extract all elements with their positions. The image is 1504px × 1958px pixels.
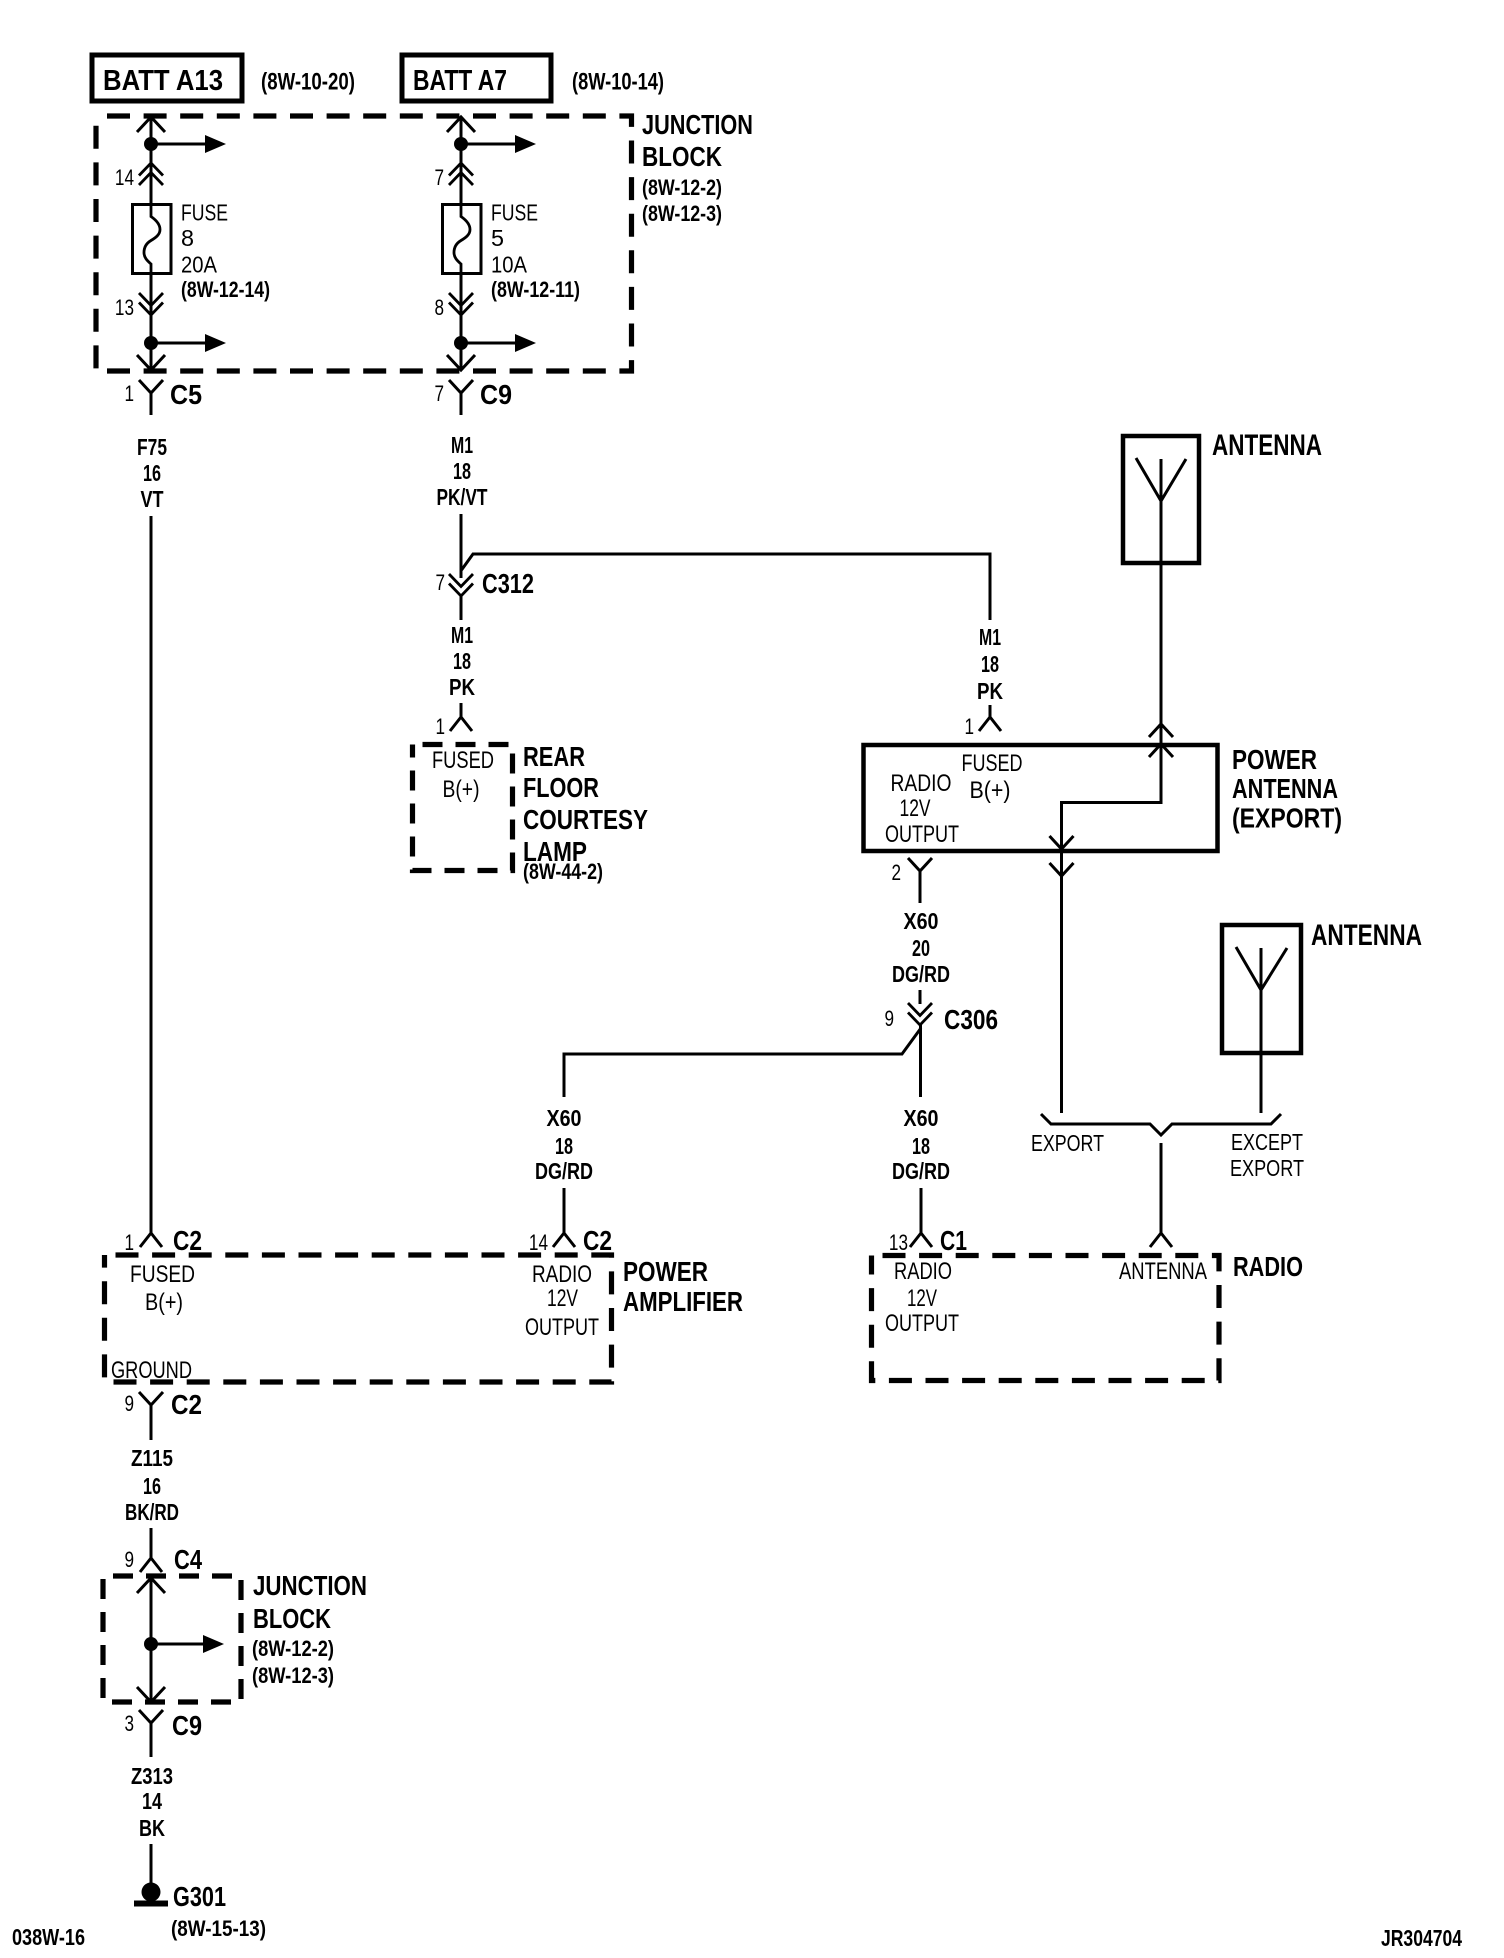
svg-text:12V: 12V	[907, 1285, 937, 1312]
svg-text:OUTPUT: OUTPUT	[885, 1310, 959, 1337]
svg-text:FLOOR: FLOOR	[523, 772, 599, 803]
svg-text:13: 13	[889, 1230, 908, 1255]
antenna wire inside power antenna box	[1062, 803, 1162, 1114]
svg-text:1: 1	[124, 1230, 134, 1255]
svg-text:(8W-12-2): (8W-12-2)	[642, 175, 722, 200]
svg-text:FUSE: FUSE	[181, 200, 228, 226]
svg-text:JUNCTION: JUNCTION	[642, 109, 753, 140]
svg-text:RADIO: RADIO	[891, 770, 952, 797]
junction node dot	[454, 137, 468, 151]
wire through junction block	[150, 1579, 153, 1700]
svg-text:C1: C1	[940, 1225, 967, 1256]
junction node dot	[454, 336, 468, 350]
svg-text:C2: C2	[173, 1225, 202, 1256]
arrow to antenna output (inside)	[1050, 836, 1074, 849]
wire to rear floor courtesy lamp	[460, 703, 463, 717]
svg-text:PK: PK	[449, 674, 475, 700]
svg-text:G301: G301	[173, 1881, 226, 1912]
svg-text:BLOCK: BLOCK	[642, 141, 722, 172]
svg-text:X60: X60	[904, 908, 939, 934]
arrow out of junction block	[447, 355, 475, 370]
wire from BATT feed down through junction block	[150, 117, 153, 204]
svg-text:X60: X60	[547, 1105, 582, 1131]
junction node dot	[144, 137, 158, 151]
svg-text:JR304704: JR304704	[1381, 1925, 1462, 1951]
svg-text:12V: 12V	[900, 795, 931, 822]
svg-text:POWER: POWER	[1232, 744, 1317, 775]
wire to power antenna	[989, 705, 992, 717]
svg-text:16: 16	[143, 460, 161, 486]
splice tap to power amplifier branch	[564, 1028, 921, 1097]
junction block (lower) dashed outline	[103, 1576, 241, 1702]
arrow into junction block	[137, 1578, 165, 1593]
connector C5 pin 1	[139, 380, 163, 415]
arrow to antenna output (outside)	[1050, 863, 1074, 876]
svg-text:18: 18	[555, 1133, 573, 1159]
svg-text:DG/RD: DG/RD	[892, 961, 950, 987]
svg-text:2: 2	[891, 860, 901, 885]
svg-text:7: 7	[434, 165, 444, 190]
svg-text:EXPORT: EXPORT	[1031, 1130, 1104, 1156]
svg-text:COURTESY: COURTESY	[523, 804, 648, 835]
connector C306 pin 9 (chevrons)	[908, 1003, 932, 1016]
svg-text:(8W-12-11): (8W-12-11)	[491, 277, 580, 302]
svg-text:14: 14	[115, 165, 134, 190]
svg-text:FUSED: FUSED	[962, 750, 1023, 777]
ground G301 symbol	[142, 1883, 161, 1902]
svg-text:18: 18	[453, 648, 471, 674]
svg-text:VT: VT	[141, 486, 164, 512]
svg-text:13: 13	[115, 295, 134, 320]
svg-text:RADIO: RADIO	[1233, 1251, 1303, 1282]
svg-text:BATT A13: BATT A13	[103, 65, 223, 97]
svg-text:RADIO: RADIO	[532, 1261, 592, 1288]
junction block (top) dashed outline	[96, 116, 632, 371]
svg-text:M1: M1	[451, 432, 473, 458]
svg-text:FUSED: FUSED	[130, 1261, 195, 1288]
antenna symbol	[1236, 947, 1287, 990]
svg-text:(8W-12-3): (8W-12-3)	[642, 201, 722, 226]
branch arrow to other circuits	[461, 143, 517, 146]
svg-text:18: 18	[912, 1133, 930, 1159]
svg-text:M1: M1	[979, 624, 1001, 650]
svg-text:18: 18	[453, 458, 471, 484]
fuse 5 element	[454, 195, 470, 285]
svg-text:DG/RD: DG/RD	[535, 1158, 593, 1184]
svg-text:F75: F75	[137, 434, 167, 460]
connector C2 pin 14 into power amplifier	[553, 1233, 575, 1247]
arrow into power antenna (outside)	[1149, 724, 1173, 737]
svg-text:10A: 10A	[491, 252, 528, 278]
branch arrow to other circuits	[461, 342, 517, 345]
svg-text:AMPLIFIER: AMPLIFIER	[623, 1286, 743, 1317]
svg-text:X60: X60	[904, 1105, 939, 1131]
wire from BATT feed down through junction block	[460, 117, 463, 204]
svg-text:OUTPUT: OUTPUT	[885, 821, 959, 848]
svg-text:14: 14	[529, 1230, 548, 1255]
svg-text:(8W-12-3): (8W-12-3)	[252, 1663, 334, 1688]
connector chevrons pin 8	[449, 293, 473, 306]
arrow from battery feed into junction block	[137, 117, 165, 132]
rear floor courtesy lamp dashed outline	[413, 745, 513, 871]
branch arrow to other circuits	[151, 143, 207, 146]
connector C4 pin 9 into junction block	[140, 1558, 162, 1572]
svg-text:(8W-44-2): (8W-44-2)	[523, 859, 603, 884]
svg-text:RADIO: RADIO	[894, 1258, 952, 1285]
svg-text:BLOCK: BLOCK	[253, 1603, 331, 1634]
svg-text:18: 18	[981, 651, 999, 677]
wire F75 16 VT (long vertical run)	[150, 516, 153, 1233]
svg-text:3: 3	[124, 1711, 134, 1736]
svg-text:BK: BK	[139, 1815, 165, 1841]
svg-text:C5: C5	[170, 379, 202, 410]
svg-text:POWER: POWER	[623, 1256, 708, 1287]
svg-text:BK/RD: BK/RD	[125, 1499, 179, 1525]
svg-text:GROUND: GROUND	[111, 1357, 192, 1384]
svg-text:14: 14	[142, 1788, 162, 1814]
svg-text:FUSED: FUSED	[432, 747, 494, 774]
connector C2 pin 9 below power amplifier	[139, 1392, 163, 1440]
svg-text:JUNCTION: JUNCTION	[253, 1570, 367, 1601]
fuse 5 body	[443, 205, 482, 274]
connector C1 pin 13 into radio	[910, 1233, 932, 1247]
svg-text:C312: C312	[482, 568, 534, 599]
fuse 8 body	[133, 205, 172, 274]
svg-text:1: 1	[435, 714, 445, 739]
arrow from battery feed into junction block	[447, 117, 475, 132]
wire below fuse	[460, 275, 463, 368]
svg-text:PK/VT: PK/VT	[437, 484, 488, 510]
svg-text:C2: C2	[171, 1389, 202, 1420]
svg-text:M1: M1	[451, 622, 473, 648]
wire to power amplifier	[563, 1188, 566, 1233]
svg-text:9: 9	[884, 1006, 894, 1031]
antenna lead wire	[1160, 459, 1163, 804]
power amplifier dashed outline	[105, 1255, 612, 1382]
junction node dot	[144, 336, 158, 350]
svg-text:Z115: Z115	[131, 1445, 173, 1471]
connector pin 2 below power antenna	[908, 858, 932, 903]
svg-text:(8W-12-2): (8W-12-2)	[252, 1636, 334, 1661]
power antenna (export) box	[864, 745, 1218, 851]
svg-text:EXPORT: EXPORT	[1230, 1155, 1304, 1181]
branch arrow to other circuits	[151, 1643, 205, 1646]
antenna wire to radio	[1160, 1143, 1163, 1233]
connector C312 pin 7 (chevrons)	[449, 574, 473, 587]
svg-text:8: 8	[181, 225, 194, 251]
svg-text:PK: PK	[977, 678, 1003, 704]
connector C9 pin 3	[139, 1710, 163, 1757]
connector chevrons pin 14	[139, 163, 163, 176]
svg-text:DG/RD: DG/RD	[892, 1158, 950, 1184]
junction node dot	[144, 1637, 158, 1651]
svg-text:(8W-15-13): (8W-15-13)	[171, 1916, 266, 1941]
svg-text:C9: C9	[172, 1710, 202, 1741]
svg-text:(8W-10-20): (8W-10-20)	[261, 69, 355, 96]
svg-text:ANTENNA: ANTENNA	[1232, 773, 1338, 804]
svg-text:BATT A7: BATT A7	[413, 65, 507, 97]
arrow out of junction block	[137, 355, 165, 370]
svg-text:FUSE: FUSE	[491, 200, 538, 226]
antenna lead wire	[1260, 948, 1263, 1113]
arrow into power antenna (inside)	[1149, 744, 1173, 757]
svg-text:16: 16	[143, 1473, 161, 1499]
svg-text:7: 7	[435, 570, 445, 595]
svg-text:B(+): B(+)	[970, 777, 1011, 804]
svg-text:C4: C4	[174, 1544, 202, 1575]
connector pin 1 into power antenna	[979, 717, 1001, 731]
antenna box (except export)	[1222, 925, 1301, 1053]
wire to radio	[920, 1188, 923, 1233]
wire M1 18 PK/VT	[460, 514, 463, 578]
svg-text:EXCEPT: EXCEPT	[1231, 1129, 1303, 1155]
wire below C312	[460, 596, 463, 620]
svg-text:20: 20	[912, 935, 930, 961]
arrow out of junction block	[137, 1687, 165, 1702]
svg-text:8: 8	[434, 295, 444, 320]
connector chevrons pin 7	[449, 163, 473, 176]
svg-text:(8W-10-14): (8W-10-14)	[572, 69, 664, 96]
battery feed box BATT A7	[402, 55, 551, 101]
wire below C306	[919, 1025, 922, 1097]
connector C2 pin 1 into power amplifier	[140, 1233, 162, 1247]
wire Z313 to ground	[150, 1844, 153, 1884]
svg-text:ANTENNA: ANTENNA	[1212, 429, 1322, 462]
wire Z115	[150, 1528, 153, 1558]
connector C9 pin 7	[449, 380, 473, 415]
svg-text:(8W-12-14): (8W-12-14)	[181, 277, 270, 302]
wire below fuse	[150, 275, 153, 368]
svg-text:1: 1	[964, 714, 974, 739]
svg-text:ANTENNA: ANTENNA	[1311, 919, 1422, 952]
fuse 8 element	[144, 195, 160, 285]
svg-text:C306: C306	[944, 1004, 998, 1035]
wire branch to power antenna (horizontal)	[462, 554, 991, 620]
antenna symbol	[1136, 458, 1186, 501]
svg-text:ANTENNA: ANTENNA	[1119, 1258, 1207, 1285]
svg-text:5: 5	[491, 225, 504, 251]
wire X60 to C306	[919, 990, 922, 1004]
svg-text:1: 1	[124, 381, 134, 406]
antenna (export) box	[1123, 436, 1199, 563]
battery feed box BATT A13	[92, 55, 242, 101]
svg-text:B(+): B(+)	[443, 776, 480, 803]
svg-text:7: 7	[434, 381, 444, 406]
svg-text:C9: C9	[480, 379, 512, 410]
svg-text:9: 9	[124, 1547, 134, 1572]
svg-text:(EXPORT): (EXPORT)	[1232, 803, 1342, 834]
branch arrow to other circuits	[151, 342, 207, 345]
merge brace export / except export	[1041, 1114, 1281, 1135]
svg-text:20A: 20A	[181, 252, 218, 278]
svg-text:9: 9	[124, 1391, 134, 1416]
svg-text:B(+): B(+)	[145, 1289, 183, 1316]
svg-text:OUTPUT: OUTPUT	[525, 1314, 599, 1341]
svg-text:038W-16: 038W-16	[12, 1924, 85, 1950]
svg-text:12V: 12V	[547, 1285, 578, 1312]
antenna connector into radio	[1150, 1233, 1172, 1247]
connector pin 1 into lamp	[450, 717, 472, 731]
radio dashed outline	[872, 1256, 1220, 1381]
svg-text:C2: C2	[583, 1225, 612, 1256]
svg-text:REAR: REAR	[523, 741, 585, 772]
connector chevrons pin 13	[139, 293, 163, 306]
svg-text:Z313: Z313	[131, 1763, 173, 1789]
